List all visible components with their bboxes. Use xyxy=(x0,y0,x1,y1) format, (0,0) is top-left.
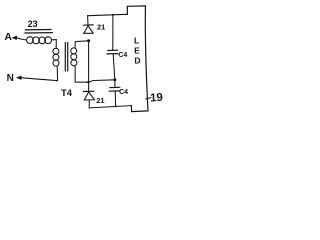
transformer T4 core xyxy=(65,42,67,71)
junction top diode node xyxy=(87,39,90,42)
leader line to 19 xyxy=(146,98,151,99)
svg-text:21: 21 xyxy=(97,23,105,32)
LED module box xyxy=(127,6,148,112)
wire secondary top to diode node xyxy=(75,41,88,48)
svg-text:T4: T4 xyxy=(61,88,73,99)
svg-text:D: D xyxy=(134,55,140,65)
junction at diode mid wire xyxy=(87,81,90,84)
svg-text:A: A xyxy=(4,31,12,43)
svg-text:E: E xyxy=(134,46,140,56)
wire top rail xyxy=(88,14,128,15)
wire node to capacitor C4 lower xyxy=(114,80,116,87)
wire capacitor C4 upper to node xyxy=(113,54,115,80)
wire inductor to transformer primary xyxy=(51,40,56,49)
junction bottom rail capacitor xyxy=(115,105,117,107)
wire bottom rail xyxy=(89,106,131,108)
inductor 23 core bar lower xyxy=(25,32,53,34)
junction top rail capacitor xyxy=(112,14,114,16)
inductor 23 core bar upper xyxy=(25,29,51,31)
inductor 23 winding xyxy=(27,37,52,44)
svg-text:23: 23 xyxy=(28,19,38,29)
wire rail to capacitor C4 upper xyxy=(112,15,114,50)
terminal arrow at A xyxy=(12,36,17,40)
capacitor C4 lower plate top xyxy=(110,86,120,88)
capacitor C4 upper plate top xyxy=(108,49,118,51)
wire secondary bottom down xyxy=(74,66,76,82)
capacitor C4 upper plate bottom xyxy=(107,53,118,55)
svg-text:L: L xyxy=(134,35,139,45)
wire capacitor C4 lower to bottom rail xyxy=(114,91,116,106)
terminal arrow at N xyxy=(17,76,22,80)
diode 21 upper cathode bar xyxy=(84,24,94,26)
svg-text:C4: C4 xyxy=(118,52,127,59)
wire diode chain vertical xyxy=(88,41,90,91)
svg-text:C4: C4 xyxy=(119,89,128,96)
wire A to inductor xyxy=(17,38,26,40)
wire primary bottom to N line xyxy=(57,66,58,80)
transformer T4 primary winding xyxy=(53,48,59,66)
diode 21 lower triangle xyxy=(84,92,94,100)
svg-text:19: 19 xyxy=(150,92,163,105)
wire diode top to rail xyxy=(87,16,89,25)
junction at capacitor C4 node xyxy=(113,78,116,81)
transformer T4 secondary winding xyxy=(71,48,77,66)
wire diode lower to bottom rail xyxy=(88,100,90,108)
wire N line xyxy=(21,78,57,81)
svg-text:21: 21 xyxy=(96,96,104,105)
diode 21 lower cathode bar xyxy=(83,90,94,92)
diode 21 upper triangle xyxy=(84,26,94,33)
wire secondary bottom to capacitor node xyxy=(75,80,115,82)
capacitor C4 lower plate bottom xyxy=(109,90,120,92)
svg-text:N: N xyxy=(7,73,14,84)
